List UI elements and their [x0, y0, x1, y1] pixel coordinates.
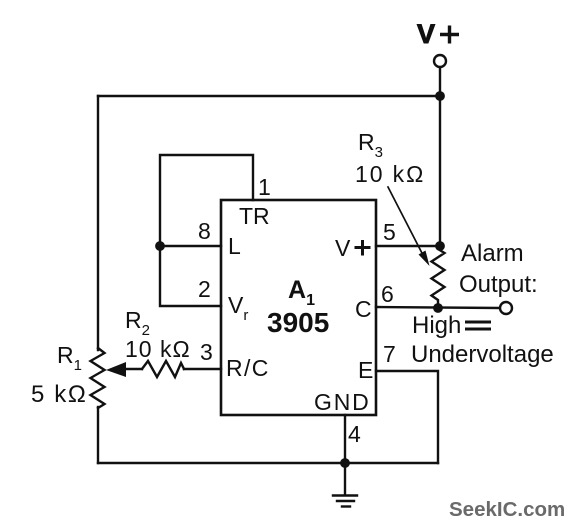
svg-text:A1: A1: [288, 276, 315, 309]
terminal alarm output: [500, 302, 512, 314]
junction pin5 node: [435, 241, 445, 251]
equals sign High =: [465, 322, 491, 329]
svg-text:10 kΩ: 10 kΩ: [125, 336, 191, 362]
arrowhead R3 pointer: [419, 251, 430, 267]
wire R2 to wiper arrow: [124, 368, 142, 370]
svg-text:L: L: [228, 233, 241, 259]
terminal V+: [434, 55, 446, 67]
wire left rail upper: [97, 96, 99, 350]
svg-text:Vr: Vr: [228, 292, 248, 324]
svg-text:SeekIC.com: SeekIC.com: [449, 498, 565, 521]
junction top rail / V+: [435, 91, 445, 101]
svg-text:R/C: R/C: [226, 355, 270, 381]
wire top rail: [98, 95, 440, 97]
svg-text:C: C: [355, 296, 372, 322]
svg-text:TR: TR: [239, 203, 270, 229]
svg-text:3: 3: [200, 339, 213, 365]
junction pin8 loop: [155, 241, 165, 251]
op-amp/timer IC A1 box: [221, 200, 376, 415]
resistor R3: [432, 249, 445, 304]
svg-text:3905: 3905: [267, 307, 329, 338]
plus sign of V+ supply: [440, 26, 459, 44]
svg-text:R3: R3: [358, 129, 383, 161]
svg-text:5: 5: [383, 219, 396, 245]
svg-text:1: 1: [258, 174, 271, 200]
wire pin3 stub: [184, 368, 221, 370]
svg-text:8: 8: [198, 218, 211, 244]
svg-text:R2: R2: [125, 307, 150, 339]
resistor R1: [91, 348, 105, 408]
svg-text:2: 2: [198, 276, 211, 302]
wire left rail lower: [97, 407, 99, 463]
wire V+ vertical: [439, 67, 441, 246]
wire pin7 to bottom rail: [376, 371, 438, 463]
arrow R3 label pointer: [388, 187, 424, 257]
svg-text:Output:: Output:: [459, 271, 538, 298]
junction pin6 node: [433, 303, 443, 313]
ground: [333, 463, 357, 507]
svg-text:5 kΩ: 5 kΩ: [31, 381, 87, 408]
svg-text:V: V: [335, 235, 351, 261]
junction ground node: [340, 458, 350, 468]
resistor R2: [142, 361, 184, 377]
svg-text:7: 7: [383, 341, 396, 367]
svg-text:V: V: [417, 19, 435, 49]
svg-text:6: 6: [381, 281, 394, 307]
svg-text:4: 4: [348, 421, 361, 447]
svg-text:High: High: [412, 312, 461, 339]
wire TR loop: [160, 155, 253, 306]
svg-text:R1: R1: [57, 342, 82, 374]
plus sign of pin V+ name: [355, 240, 371, 256]
arrowhead R2 wiper: [106, 362, 126, 377]
svg-text:10 kΩ: 10 kΩ: [355, 161, 425, 187]
wire pin4 stub: [344, 415, 346, 463]
svg-text:Undervoltage: Undervoltage: [411, 341, 554, 368]
svg-text:E: E: [358, 357, 373, 383]
wire pin8 stub: [160, 245, 221, 247]
svg-text:Alarm: Alarm: [461, 240, 524, 267]
wire bottom rail: [98, 462, 438, 464]
wire pin6 stub and alarm output: [376, 307, 500, 308]
wire pin5 stub: [376, 245, 440, 247]
svg-text:GND: GND: [314, 389, 371, 415]
